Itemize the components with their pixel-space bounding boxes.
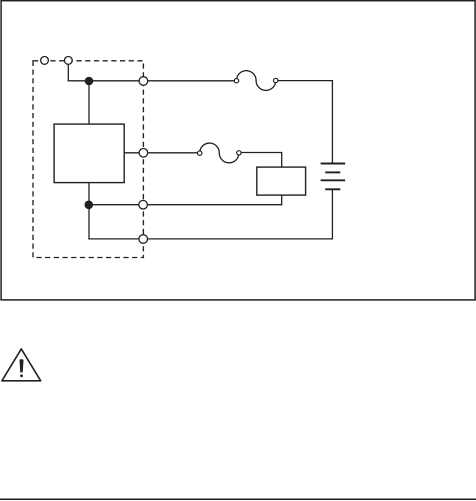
wire: row4 segment	[88, 238, 333, 240]
footer rule	[0, 498, 476, 500]
fuse F2	[198, 143, 242, 163]
terminal C1	[139, 77, 148, 86]
junction D2	[85, 201, 94, 210]
wire: relay bottom stub	[281, 195, 283, 205]
wire: junction D1 to box top	[88, 81, 90, 125]
wire: box bottom column	[88, 182, 90, 239]
wire: relay top stub	[281, 153, 283, 168]
terminal C4	[139, 235, 148, 244]
wire: row1 right segment	[278, 80, 334, 82]
figure frame	[1, 1, 475, 300]
wire: row3 segment	[88, 204, 282, 206]
terminal C2	[139, 149, 148, 158]
battery	[321, 164, 346, 190]
terminal A	[41, 57, 49, 65]
warning symbol	[2, 349, 41, 381]
wire: row2 left segment	[124, 152, 198, 154]
fuse F1	[234, 71, 278, 91]
junction D1	[85, 77, 94, 86]
component box (relay)	[257, 167, 306, 195]
component box (control unit)	[54, 124, 124, 183]
wire: terminal B drop	[67, 64, 69, 82]
terminal C3	[139, 200, 148, 209]
wire: battery negative riser	[331, 189, 333, 239]
wire: battery positive drop	[331, 81, 333, 163]
terminal B	[64, 57, 72, 65]
wire: row1 left segment	[68, 80, 235, 82]
wire: row2 right segment	[241, 152, 283, 154]
dashed enclosure (control unit boundary)	[33, 61, 143, 258]
